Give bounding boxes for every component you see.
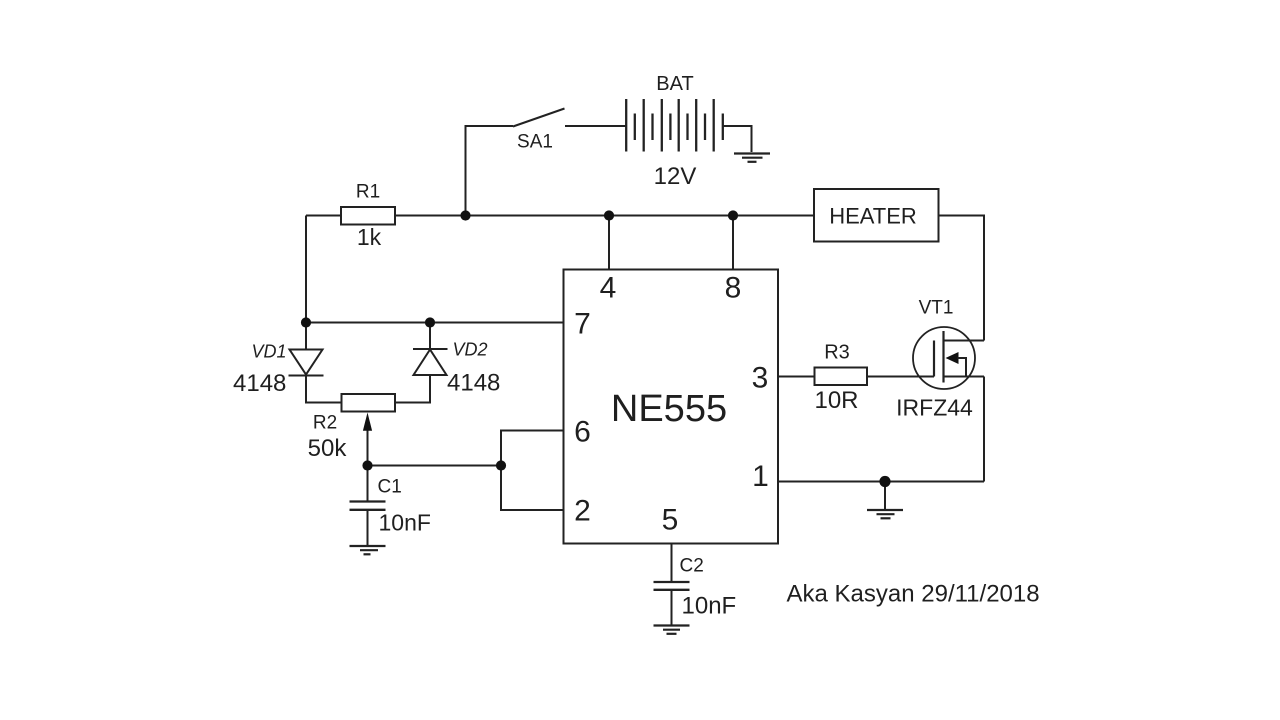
node bus-SA1 (460, 210, 470, 220)
ground C1 (350, 546, 386, 554)
node pin1-ground (879, 476, 890, 487)
wire wiper row (368, 465, 502, 467)
wire pin5 drop (671, 544, 673, 583)
svg-text:R2: R2 (313, 413, 337, 434)
svg-text:HEATER: HEATER (829, 204, 917, 229)
svg-text:3: 3 (752, 362, 769, 395)
svg-text:50k: 50k (308, 435, 348, 462)
capacitor C1 (350, 466, 386, 546)
diode VD2 (395, 323, 448, 403)
wire pin3 row (778, 376, 934, 378)
wire top bus (306, 215, 814, 217)
resistor R1 (341, 207, 395, 225)
wire battery to ground (723, 126, 752, 152)
wire pin7 row (306, 322, 564, 324)
svg-text:7: 7 (574, 308, 591, 341)
svg-text:4: 4 (600, 272, 617, 305)
wire pin4 riser (608, 216, 610, 270)
svg-text:5: 5 (662, 504, 679, 537)
wire drain riser (939, 216, 985, 341)
ground pin1 (867, 482, 903, 519)
node bracket (496, 460, 506, 470)
svg-text:BAT: BAT (656, 73, 693, 95)
node bus-pin4 (604, 210, 614, 220)
load HEATER (814, 189, 939, 242)
svg-text:C1: C1 (378, 477, 402, 498)
svg-text:VD2: VD2 (453, 340, 488, 360)
svg-text:C2: C2 (680, 556, 704, 577)
svg-text:SA1: SA1 (517, 132, 553, 153)
svg-text:Aka Kasyan 29/11/2018: Aka Kasyan 29/11/2018 (787, 581, 1040, 608)
node wiper (362, 460, 372, 470)
svg-text:4148: 4148 (233, 370, 286, 397)
switch SA1 (513, 109, 626, 127)
node VD2 (425, 317, 435, 327)
wire pin8 riser (732, 216, 734, 270)
svg-text:10nF: 10nF (379, 510, 431, 536)
svg-text:IRFZ44: IRFZ44 (896, 395, 973, 421)
capacitor C2 (654, 582, 690, 590)
svg-text:6: 6 (574, 416, 591, 449)
wire pin1 row (778, 481, 984, 483)
battery BAT (626, 99, 723, 152)
svg-text:1k: 1k (357, 224, 382, 250)
wire C2 to ground (671, 590, 673, 625)
svg-text:VT1: VT1 (919, 298, 954, 319)
svg-text:4148: 4148 (447, 370, 500, 397)
svg-text:12V: 12V (654, 163, 697, 190)
resistor R3 (815, 368, 868, 386)
wire SA1 riser (466, 126, 514, 216)
svg-text:R3: R3 (824, 342, 850, 364)
svg-text:NE555: NE555 (611, 388, 727, 430)
svg-text:2: 2 (574, 495, 591, 528)
wire pin6 pin2 bracket (501, 431, 564, 511)
wire left column (305, 216, 307, 323)
svg-text:1: 1 (752, 460, 769, 493)
transistor Q1 VT1 IRFZ44 (913, 327, 984, 389)
IC U1 NE555 (564, 270, 779, 544)
svg-text:10R: 10R (814, 387, 858, 414)
svg-text:10nF: 10nF (682, 593, 737, 620)
ground C2 (654, 626, 690, 634)
potentiometer R2 (342, 394, 396, 466)
svg-text:R1: R1 (356, 182, 380, 203)
node bus-pin8 (728, 210, 738, 220)
svg-text:VD1: VD1 (251, 342, 286, 362)
svg-text:8: 8 (725, 272, 742, 305)
node VD1 (301, 317, 311, 327)
diode VD1 (289, 323, 342, 403)
ground battery (734, 154, 770, 162)
wire source drop (983, 377, 985, 482)
